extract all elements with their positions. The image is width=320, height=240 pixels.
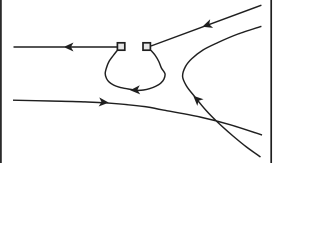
arrowhead on bottom curve (pointing right) — [99, 97, 110, 107]
arrowhead on C-curve lower branch (pointing up-left) — [190, 92, 203, 105]
arrowhead on loop bottom (pointing left) — [130, 85, 140, 95]
left frame rule — [0, 0, 2, 163]
box B1 (left square node) — [117, 43, 124, 50]
right frame rule — [270, 0, 272, 163]
arrowhead on horizontal line (pointing left) — [64, 42, 74, 51]
wire: horizontal line into left box — [14, 46, 118, 48]
box B2 (right square node) — [143, 43, 150, 50]
loop between the two boxes — [105, 50, 165, 90]
long bottom curve — [13, 100, 262, 135]
wire: straight line from right box to upper right — [151, 5, 261, 46]
arrowhead on upper-right line (pointing down-left toward box) — [201, 19, 213, 31]
large C-curve on right — [183, 26, 262, 157]
